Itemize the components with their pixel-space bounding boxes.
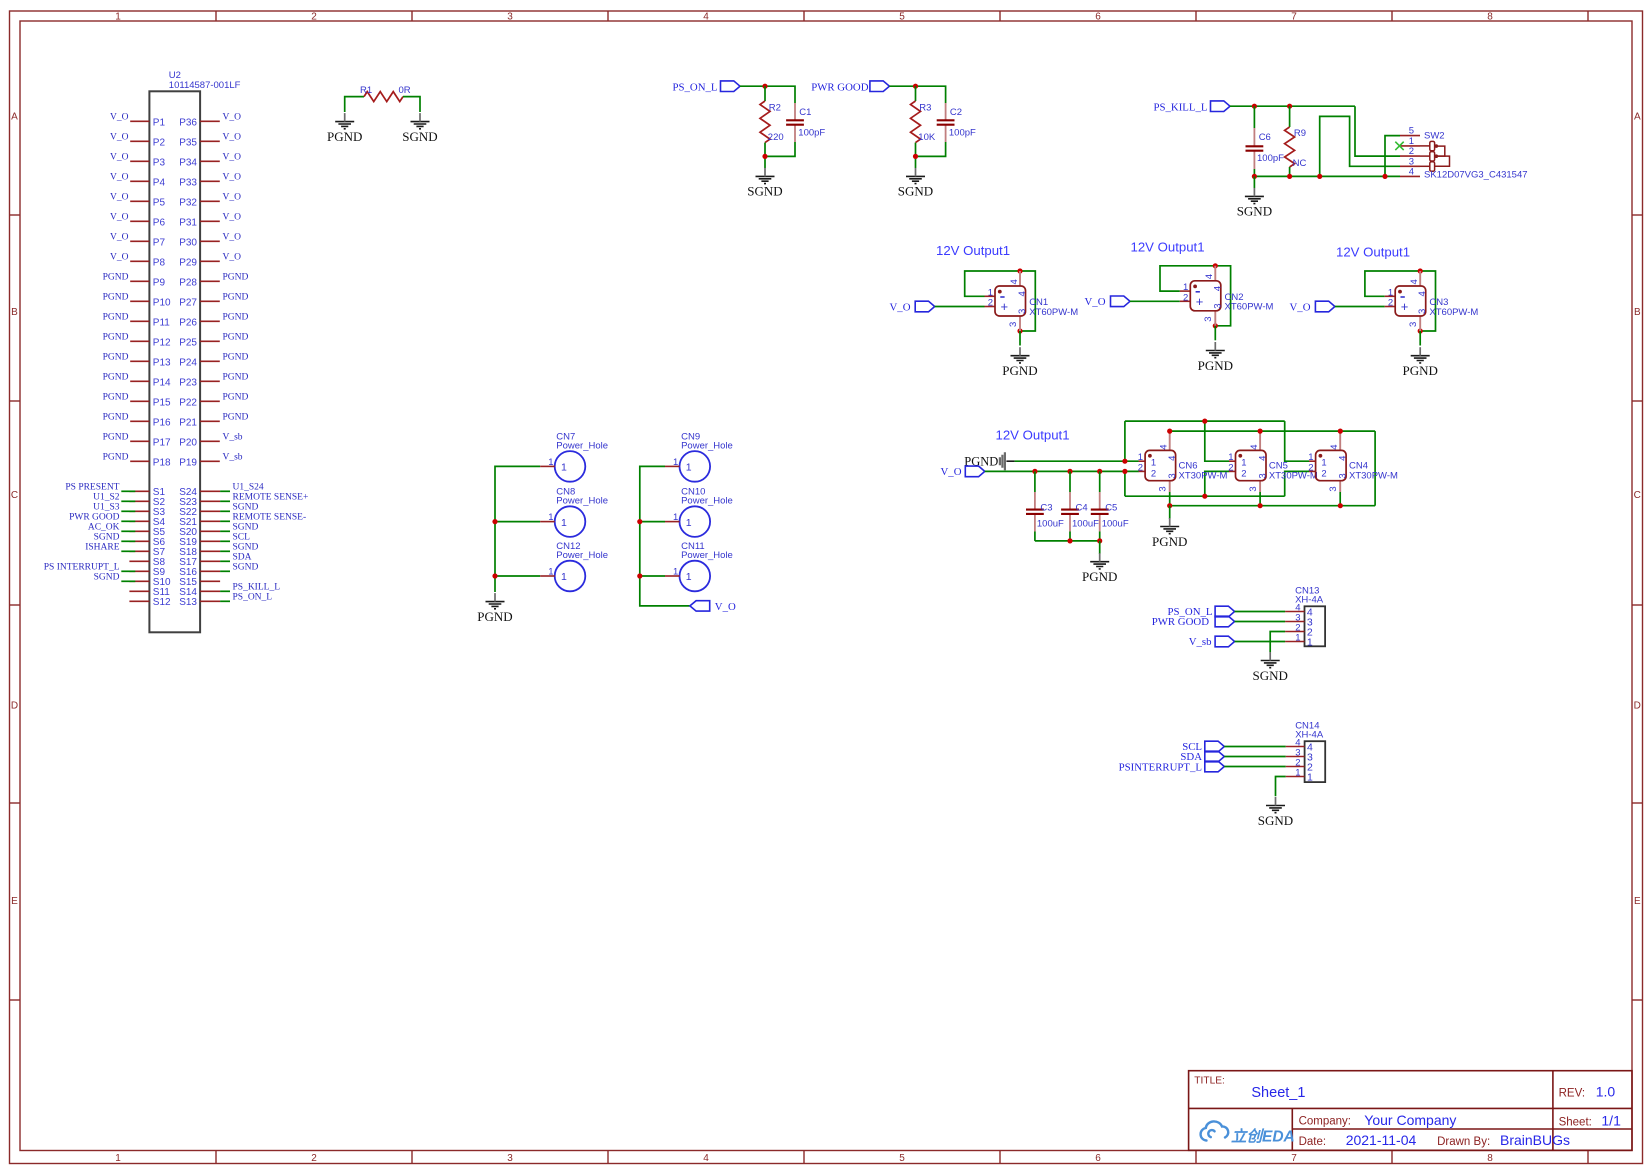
frame column numbers bottom <box>115 1153 1493 1164</box>
svg-text:4: 4 <box>703 12 709 23</box>
power flag PGND (XT30 block) <box>964 452 1014 470</box>
svg-text:SGND: SGND <box>1258 813 1293 828</box>
svg-text:+: + <box>1196 294 1204 309</box>
svg-text:P12: P12 <box>153 337 171 348</box>
net flag PWR GOOD <box>811 81 889 93</box>
svg-text:V_O: V_O <box>110 153 129 163</box>
junction lower bus CN5 branch <box>1202 494 1207 499</box>
U2 pin P29 (V_O) <box>179 253 241 269</box>
U2 pin P34 (V_O) <box>179 153 241 169</box>
U2 pin P32 (V_O) <box>179 193 241 209</box>
ground PGND (below CN3) <box>1402 347 1437 378</box>
U2 pin S20 (SGND) <box>179 522 258 538</box>
net flag V_O (CN1) <box>890 301 935 313</box>
svg-text:SCL: SCL <box>233 532 251 542</box>
capacitor bottom PGND bus <box>1035 540 1100 542</box>
junction mounting pin 4 bus <box>1258 429 1263 434</box>
svg-text:P17: P17 <box>153 437 171 448</box>
resistor R1 0R <box>360 85 411 101</box>
svg-text:100uF: 100uF <box>1037 518 1064 529</box>
wire R9 top <box>1289 106 1291 127</box>
svg-text:1: 1 <box>673 567 678 578</box>
svg-text:100uF: 100uF <box>1102 518 1129 529</box>
svg-text:SK12D07VG3_C431547: SK12D07VG3_C431547 <box>1424 170 1528 181</box>
wire PGND up to bus <box>1124 421 1126 461</box>
wire right side down <box>1374 431 1376 506</box>
wire SGND to CN14 pin 1 <box>1276 777 1286 797</box>
svg-text:V_O: V_O <box>223 173 242 183</box>
svg-text:Company:: Company: <box>1299 1116 1351 1128</box>
U2 pin S2 (U1_S2) <box>93 492 165 508</box>
svg-text:V_O: V_O <box>223 233 242 243</box>
svg-text:2: 2 <box>1241 468 1246 479</box>
svg-text:D: D <box>11 701 18 712</box>
svg-text:1: 1 <box>561 462 567 474</box>
svg-text:V_O: V_O <box>110 113 129 123</box>
svg-text:1: 1 <box>686 462 692 474</box>
svg-text:立创EDA: 立创EDA <box>1231 1128 1295 1146</box>
svg-text:V_O: V_O <box>223 113 242 123</box>
svg-text:P25: P25 <box>179 337 197 348</box>
svg-text:1: 1 <box>1241 457 1246 468</box>
ground SGND (CN13) <box>1252 652 1287 683</box>
U2 pin P30 (V_O) <box>179 233 241 249</box>
svg-text:3: 3 <box>1337 473 1348 478</box>
svg-text:PGND: PGND <box>103 353 129 363</box>
svg-text:Date:: Date: <box>1299 1136 1327 1148</box>
svg-text:XT60PW-M: XT60PW-M <box>1429 307 1478 318</box>
svg-text:6: 6 <box>1095 12 1101 23</box>
U2 pin P33 (V_O) <box>179 173 241 189</box>
wire bottom SGND bus <box>1254 175 1400 177</box>
connector CN2 XT60PW-M <box>1180 266 1274 326</box>
svg-text:PGND: PGND <box>477 609 512 624</box>
svg-text:3: 3 <box>1408 322 1419 327</box>
net flag V_O (CN3) <box>1290 301 1335 313</box>
wire CN1 pin4 to pin3 loop <box>1020 271 1035 331</box>
wire C3 top <box>1034 471 1036 492</box>
capacitor C1 100pF <box>786 103 825 142</box>
svg-text:P4: P4 <box>153 177 166 188</box>
svg-text:PGND: PGND <box>103 313 129 323</box>
U2 pin S3 (U1_S3) <box>93 502 165 518</box>
ground PGND (below C5) <box>1082 553 1117 584</box>
svg-text:V_O: V_O <box>890 301 911 313</box>
U2 pin P2 (V_O) <box>110 133 165 149</box>
junction mounting pin 4 bus <box>1338 429 1343 434</box>
U2 pin S1 (PS PRESENT) <box>65 482 165 498</box>
U2 pin P35 (V_O) <box>179 133 241 149</box>
svg-text:PSINTERRUPT_L: PSINTERRUPT_L <box>1119 761 1202 773</box>
svg-text:1: 1 <box>548 512 553 523</box>
ground PGND (below CN2) <box>1198 342 1233 373</box>
svg-text:4: 4 <box>1257 456 1268 461</box>
connector CN11 Power_Hole <box>665 541 733 591</box>
svg-text:PWR GOOD: PWR GOOD <box>811 81 868 93</box>
svg-text:1: 1 <box>686 571 692 583</box>
svg-text:PGND: PGND <box>1152 534 1187 549</box>
junction on PWR GOOD net <box>913 84 918 89</box>
connector CN1 XT60PW-M <box>985 271 1079 331</box>
connector U2 10114587-001LF <box>149 70 240 632</box>
svg-text:P11: P11 <box>153 317 170 328</box>
svg-text:P32: P32 <box>179 197 197 208</box>
wire caps to PGND <box>1099 541 1101 554</box>
junction CN3 pin 3 <box>1418 328 1423 333</box>
svg-text:Power_Hole: Power_Hole <box>556 440 608 451</box>
U2 pin P25 (PGND) <box>179 333 248 349</box>
svg-text:PGND: PGND <box>223 333 249 343</box>
svg-text:1: 1 <box>673 457 678 468</box>
wire PS_ON_L to CN13 pin 4 <box>1235 611 1286 613</box>
U2 pin P5 (V_O) <box>110 193 165 209</box>
U2 pin S12 <box>129 597 171 608</box>
svg-text:PGND: PGND <box>103 333 129 343</box>
svg-text:V_O: V_O <box>1290 301 1311 313</box>
connector CN12 Power_Hole <box>540 541 608 591</box>
svg-text:P23: P23 <box>179 377 197 388</box>
junction mounting pin 3 bus <box>1338 503 1343 508</box>
wire PS_ON_L node <box>740 86 795 103</box>
wire bottom of R2/C1 <box>764 143 766 157</box>
svg-text:R1: R1 <box>360 85 372 96</box>
svg-text:C3: C3 <box>1040 503 1052 514</box>
svg-text:2: 2 <box>311 12 317 23</box>
svg-text:PS_ON_L: PS_ON_L <box>233 592 273 602</box>
svg-text:4: 4 <box>1337 456 1348 461</box>
frame row letters left <box>11 112 18 908</box>
wire CN3 pin3 to PGND <box>1419 331 1421 346</box>
svg-text:8: 8 <box>1487 1153 1493 1164</box>
svg-text:P2: P2 <box>153 137 166 148</box>
svg-text:Sheet:: Sheet: <box>1559 1117 1592 1129</box>
U2 pin S24 (U1_S24) <box>179 482 264 498</box>
svg-text:Power_Hole: Power_Hole <box>681 550 733 561</box>
junction C5 bottom <box>1097 538 1102 543</box>
svg-text:1: 1 <box>115 1153 121 1164</box>
connector CN10 Power_Hole <box>665 487 733 537</box>
svg-text:P7: P7 <box>153 237 166 248</box>
svg-text:B: B <box>11 307 18 318</box>
svg-text:P31: P31 <box>179 217 197 228</box>
PGND mounting bus (pin 4) <box>1170 430 1375 432</box>
svg-text:C6: C6 <box>1259 132 1271 143</box>
svg-text:PGND: PGND <box>223 353 249 363</box>
svg-text:1/1: 1/1 <box>1601 1113 1621 1129</box>
ground PGND (power holes) <box>477 593 512 624</box>
svg-text:7: 7 <box>1291 12 1297 23</box>
U2 pin P15 (PGND) <box>103 393 171 409</box>
svg-text:P18: P18 <box>153 457 171 468</box>
svg-text:4: 4 <box>1159 445 1170 450</box>
U2 pin P20 (V_sb) <box>179 433 243 449</box>
U2 pin P16 (PGND) <box>103 413 171 429</box>
svg-text:PGND: PGND <box>223 293 249 303</box>
svg-text:C: C <box>1634 490 1641 501</box>
wire C6 top <box>1253 106 1255 128</box>
svg-text:Power_Hole: Power_Hole <box>556 496 608 507</box>
svg-text:P6: P6 <box>153 217 166 228</box>
svg-text:1: 1 <box>1321 457 1326 468</box>
svg-text:4: 4 <box>1204 274 1215 279</box>
wire C6 bottom <box>1253 169 1255 176</box>
svg-text:Power_Hole: Power_Hole <box>681 496 733 507</box>
svg-text:PGND: PGND <box>103 453 129 463</box>
U2 pin P4 (V_O) <box>110 173 165 189</box>
svg-text:PGND: PGND <box>223 273 249 283</box>
junction mounting pin 3 bus <box>1167 503 1172 508</box>
PGND top bus <box>1125 420 1285 422</box>
svg-text:SGND: SGND <box>1237 204 1272 219</box>
svg-text:C2: C2 <box>950 107 962 118</box>
svg-text:2: 2 <box>1151 468 1156 479</box>
U2 pin P3 (V_O) <box>110 153 165 169</box>
net flag V_sb (CN13) <box>1189 636 1235 648</box>
svg-text:+: + <box>1001 299 1009 314</box>
svg-text:V_sb: V_sb <box>223 433 243 443</box>
svg-text:P29: P29 <box>179 257 197 268</box>
svg-text:P26: P26 <box>179 317 197 328</box>
U2 pin S19 (SCL) <box>179 532 250 548</box>
wire SCL to CN14 pin 4 <box>1224 746 1285 748</box>
wire C5 bottom <box>1099 532 1101 541</box>
U2 pin S23 (REMOTE SENSE+) <box>179 492 308 508</box>
svg-text:XT30PW-M: XT30PW-M <box>1179 470 1228 481</box>
junction CN1 pin 3 <box>1017 328 1022 333</box>
wire R9 bottom <box>1289 167 1291 176</box>
connector CN9 Power_Hole <box>665 431 733 481</box>
net flag SDA (CN14) <box>1180 751 1224 763</box>
ground PGND (below CN6) <box>1152 518 1187 549</box>
wire V_O to CN3 pin 2 <box>1335 306 1385 308</box>
wire to SW2 pin 5 <box>1385 136 1400 177</box>
wire CN2 pin3 to PGND <box>1214 326 1216 341</box>
net flag PS_KILL_L <box>1154 101 1231 114</box>
svg-text:XT60PW-M: XT60PW-M <box>1225 302 1274 313</box>
svg-text:REMOTE SENSE+: REMOTE SENSE+ <box>233 492 309 502</box>
svg-text:3: 3 <box>1248 486 1259 491</box>
connector CN14 XH-4A <box>1286 720 1326 783</box>
svg-text:220: 220 <box>768 132 784 143</box>
svg-text:A: A <box>11 112 18 123</box>
svg-text:ISHARE: ISHARE <box>85 542 120 552</box>
U2 pin S7 (ISHARE) <box>85 542 165 558</box>
svg-text:P27: P27 <box>179 297 197 308</box>
junction CN10 branch <box>637 519 642 524</box>
V_O lower bus <box>1125 495 1285 497</box>
connector CN7 Power_Hole <box>540 431 608 481</box>
svg-text:4: 4 <box>1017 291 1028 296</box>
net flag V_O (power holes) <box>690 601 736 613</box>
svg-text:PGND: PGND <box>223 413 249 423</box>
wire CN3 pin4 to pin3 loop <box>1420 271 1435 331</box>
svg-text:1: 1 <box>1307 772 1313 784</box>
wire to SGND below C6 <box>1253 176 1255 188</box>
wire PGND bus to CN4 pin 1 <box>1285 421 1310 461</box>
svg-text:PS PRESENT: PS PRESENT <box>65 482 119 492</box>
svg-text:REV:: REV: <box>1559 1087 1585 1099</box>
svg-text:P28: P28 <box>179 277 197 288</box>
PGND mounting bus (pin 3) <box>1170 505 1375 507</box>
svg-text:SGND: SGND <box>233 502 259 512</box>
svg-text:V_sb: V_sb <box>223 453 243 463</box>
svg-text:U1_S2: U1_S2 <box>93 492 120 502</box>
wire SDA to CN14 pin 3 <box>1224 756 1285 758</box>
svg-text:V_O: V_O <box>110 253 129 263</box>
U2 pin S14 (PS_KILL_L) <box>179 582 280 598</box>
svg-text:V_O: V_O <box>715 601 736 613</box>
capacitor C2 100pF <box>937 103 976 142</box>
svg-text:PGND: PGND <box>223 313 249 323</box>
svg-text:SGND: SGND <box>94 532 120 542</box>
wire PS_KILL_L net top <box>1230 105 1355 107</box>
net flag PS_ON_L (CN13) <box>1168 606 1235 618</box>
svg-text:C: C <box>11 490 18 501</box>
svg-text:P33: P33 <box>179 177 197 188</box>
wire R3 top <box>915 86 917 101</box>
U2 pin P26 (PGND) <box>179 313 248 329</box>
svg-text:1: 1 <box>1295 767 1300 778</box>
svg-text:1: 1 <box>1151 457 1156 468</box>
svg-text:S13: S13 <box>179 597 197 608</box>
svg-text:V_O: V_O <box>110 133 129 143</box>
junction C6 top <box>1252 104 1257 109</box>
svg-text:P14: P14 <box>153 377 171 388</box>
wire C4 bottom <box>1069 532 1071 541</box>
svg-text:7: 7 <box>1291 1153 1297 1164</box>
wire CN2 pin4 to pin1 loop <box>1160 266 1215 291</box>
svg-text:R9: R9 <box>1294 128 1306 139</box>
svg-text:TITLE:: TITLE: <box>1194 1075 1225 1086</box>
U2 pin P7 (V_O) <box>110 233 165 249</box>
U2 pin S16 (SGND) <box>179 562 258 578</box>
ground PGND (below CN1) <box>1002 347 1037 378</box>
wire to SW2 pin 2 <box>1355 106 1400 156</box>
net flag SCL (CN14) <box>1182 741 1224 753</box>
wire to SW2 pin 3 <box>1320 116 1400 176</box>
wire C4 top <box>1069 471 1071 492</box>
wire PGND vertical (power holes left) <box>495 466 540 592</box>
svg-text:Power_Hole: Power_Hole <box>556 550 608 561</box>
svg-text:PWR GOOD: PWR GOOD <box>69 512 120 522</box>
svg-text:4: 4 <box>1009 279 1020 284</box>
svg-text:1: 1 <box>561 517 567 529</box>
svg-text:PGND: PGND <box>103 413 129 423</box>
wire V_O down to bus <box>1124 471 1126 496</box>
junction CN11 branch <box>637 573 642 578</box>
svg-text:3: 3 <box>1017 309 1028 314</box>
resistor R9 NC <box>1285 127 1307 169</box>
title block texts <box>1194 1075 1621 1148</box>
wire CN3 pin4 to pin1 loop <box>1365 271 1420 296</box>
svg-text:V_O: V_O <box>223 133 242 143</box>
svg-text:U1_S3: U1_S3 <box>93 502 120 512</box>
junction C4 bottom <box>1067 538 1072 543</box>
svg-text:100pF: 100pF <box>798 127 825 138</box>
junction C3 top <box>1032 469 1037 474</box>
svg-text:SGND: SGND <box>233 562 259 572</box>
svg-text:A: A <box>1634 112 1641 123</box>
svg-text:2: 2 <box>311 1153 317 1164</box>
U2 pin P24 (PGND) <box>179 353 248 369</box>
svg-text:SGND: SGND <box>898 184 933 199</box>
net flag PS_ON_L <box>673 81 741 93</box>
svg-text:SGND: SGND <box>233 522 259 532</box>
wire R2 top <box>764 86 766 101</box>
svg-text:2: 2 <box>1138 462 1143 473</box>
EasyEDA (LCEDA) logo <box>1201 1121 1295 1145</box>
connector CN6 XT30PW-M <box>1138 431 1228 506</box>
capacitor C6 100pF <box>1246 128 1285 169</box>
svg-text:3: 3 <box>1212 304 1223 309</box>
junction R9 top <box>1287 104 1292 109</box>
svg-text:XT30PW-M: XT30PW-M <box>1349 470 1398 481</box>
net flag PSINTERRUPT_L (CN14) <box>1119 761 1225 773</box>
svg-text:NC: NC <box>1293 158 1307 169</box>
svg-text:3: 3 <box>507 1153 513 1164</box>
svg-text:3: 3 <box>1417 309 1428 314</box>
junction bottom of R3 <box>913 154 918 159</box>
svg-text:V_sb: V_sb <box>1189 636 1212 648</box>
svg-text:2: 2 <box>1228 462 1233 473</box>
junction mounting pin 4 bus <box>1167 429 1172 434</box>
svg-text:V_O: V_O <box>110 233 129 243</box>
svg-text:V_O: V_O <box>110 173 129 183</box>
wire V_O bus to CN4 pin 2 <box>1285 471 1310 496</box>
svg-text:PS_KILL_L: PS_KILL_L <box>1154 102 1208 114</box>
U2 pin P19 (V_sb) <box>179 453 243 469</box>
junction CN1 pin 4 <box>1017 268 1022 273</box>
junction CN2 pin 3 <box>1213 323 1218 328</box>
svg-text:2: 2 <box>1183 292 1188 303</box>
svg-text:2021-11-04: 2021-11-04 <box>1346 1132 1417 1148</box>
wire V_sb to CN13 pin 1 <box>1235 641 1286 643</box>
switch SW2 SK12D07VG3_C431547 <box>1400 126 1528 181</box>
svg-text:P30: P30 <box>179 237 197 248</box>
svg-text:+: + <box>1401 299 1409 314</box>
svg-text:R2: R2 <box>769 103 781 114</box>
junction pin3 branch <box>1317 174 1322 179</box>
svg-text:C5: C5 <box>1105 503 1117 514</box>
U2 pin P36 (V_O) <box>179 113 241 129</box>
capacitor C3 100uF <box>1026 492 1064 532</box>
svg-text:B: B <box>1634 307 1641 318</box>
wire PSINTERRUPT_L to CN14 pin 2 <box>1224 766 1285 768</box>
U2 pin S21 (REMOTE SENSE-) <box>179 512 306 528</box>
svg-text:V_O: V_O <box>110 213 129 223</box>
svg-text:2: 2 <box>988 298 993 309</box>
U2 pin P27 (PGND) <box>179 293 248 309</box>
title block <box>1189 1071 1632 1151</box>
svg-text:SGND: SGND <box>94 572 120 582</box>
svg-text:4: 4 <box>1409 279 1420 284</box>
svg-text:4: 4 <box>703 1153 709 1164</box>
junction CN3 pin 4 <box>1418 268 1423 273</box>
svg-text:V_O: V_O <box>223 213 242 223</box>
svg-text:PS INTERRUPT_L: PS INTERRUPT_L <box>44 562 120 572</box>
wire V_O vertical (power holes right) <box>640 466 690 606</box>
svg-text:E: E <box>1634 896 1641 907</box>
U2 pin P28 (PGND) <box>179 273 248 289</box>
U2 pin S4 (PWR GOOD) <box>69 512 165 528</box>
svg-text:P1: P1 <box>153 117 166 128</box>
junction V_O wire <box>1122 469 1127 474</box>
svg-text:1: 1 <box>115 12 121 23</box>
U2 pin S10 (SGND) <box>94 572 171 588</box>
svg-text:SW2: SW2 <box>1424 130 1445 141</box>
svg-text:PGND: PGND <box>223 373 249 383</box>
svg-text:R3: R3 <box>919 103 931 114</box>
